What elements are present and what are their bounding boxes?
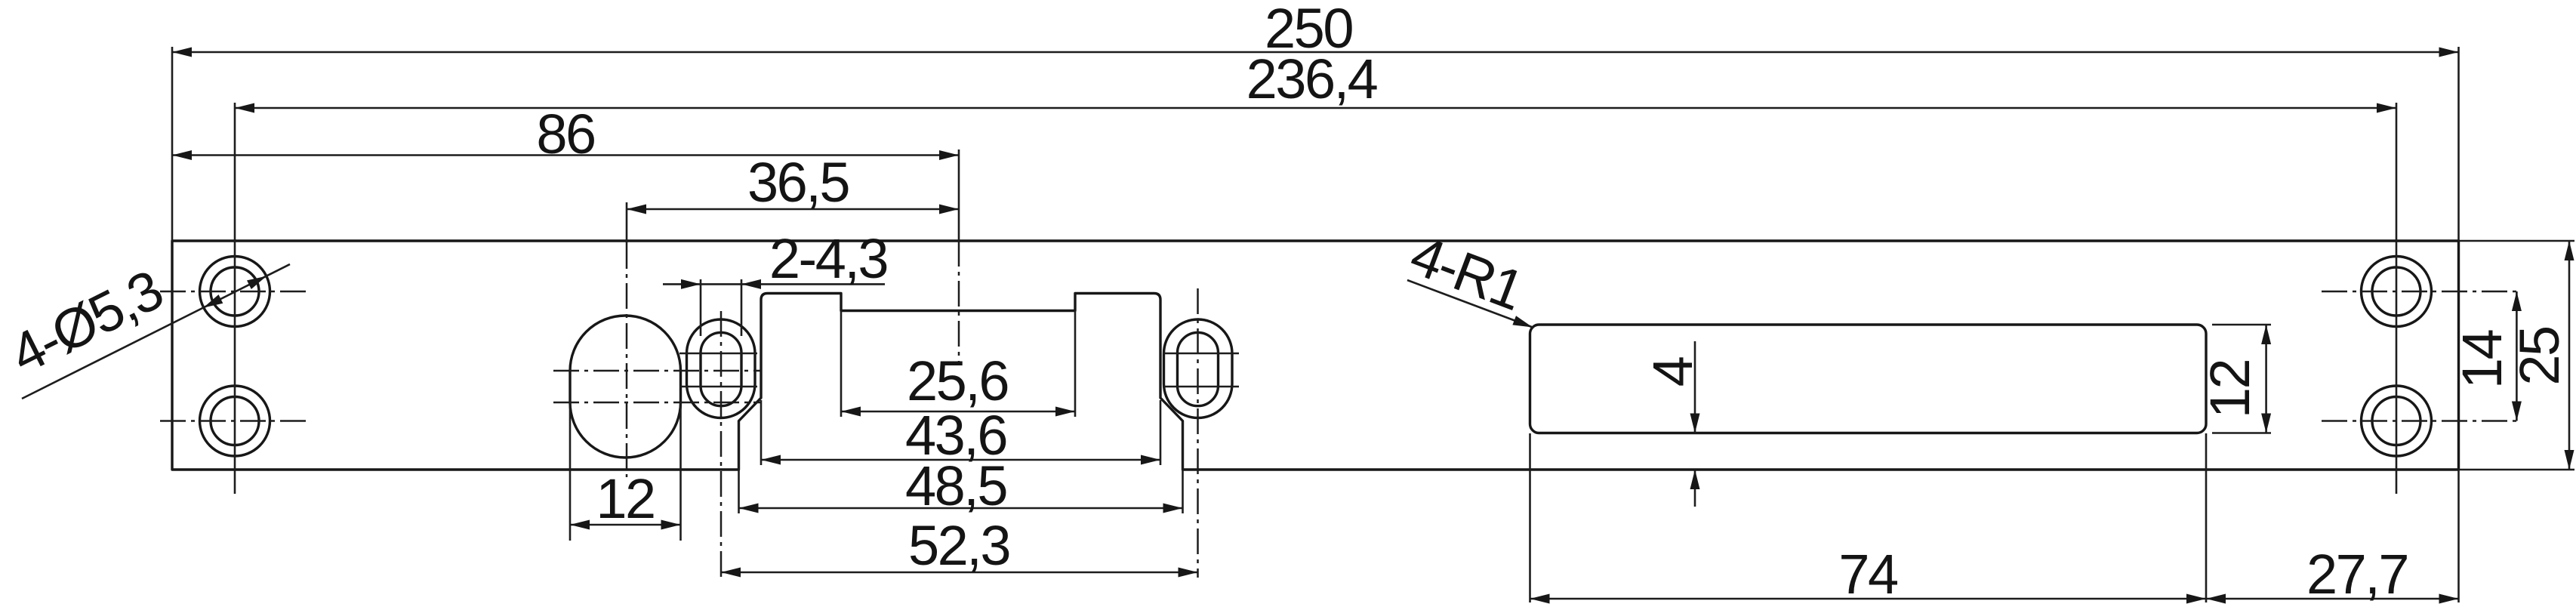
svg-text:48,5: 48,5 <box>905 455 1006 517</box>
centerline hole top-right <box>2322 291 2519 293</box>
dim 74 and 27,7 <box>1530 433 2459 602</box>
svg-text:27,7: 27,7 <box>2306 543 2408 604</box>
dim 25,6 <box>841 311 1075 418</box>
dim 2-4,3 <box>663 279 885 336</box>
hole top-left inner <box>211 267 259 316</box>
svg-text:4: 4 <box>1641 357 1704 387</box>
svg-text:25,6: 25,6 <box>907 350 1008 412</box>
hole top-left outer <box>200 257 270 327</box>
leader 4-d5,3 <box>22 264 290 399</box>
hole bottom-right inner <box>2372 397 2420 445</box>
centerline pocket vertical <box>958 149 960 241</box>
hole bottom-left inner <box>211 397 259 445</box>
dim 4 vertical <box>1694 341 1696 507</box>
dim 86 <box>172 154 959 156</box>
dim 48,5 <box>739 422 1183 513</box>
centerline right hole column <box>2396 103 2398 494</box>
centerline left slot arcs <box>679 353 757 387</box>
svg-text:74: 74 <box>1838 543 1897 604</box>
dim 43,6 <box>761 400 1160 465</box>
large oval latch hole <box>570 316 681 458</box>
dim 52,3 <box>721 572 1198 574</box>
right screw slot inner <box>1178 332 1219 405</box>
left screw slot inner <box>701 332 741 405</box>
centerline oval arc lower <box>553 402 760 404</box>
left screw slot outer <box>687 319 756 418</box>
centerline left slot vertical <box>720 311 723 578</box>
centerline hole bottom-right <box>2322 420 2519 422</box>
svg-text:36,5: 36,5 <box>747 151 849 214</box>
svg-text:14: 14 <box>2451 331 2513 390</box>
svg-text:2-4,3: 2-4,3 <box>769 227 887 290</box>
long slot right <box>1530 325 2207 433</box>
hole bottom-right outer <box>2362 386 2432 456</box>
dim 12 oval <box>570 402 681 541</box>
dim 14 holes <box>2516 291 2518 421</box>
dim 250 <box>172 47 2459 241</box>
hole top-right inner <box>2372 267 2420 316</box>
svg-text:86: 86 <box>536 103 594 165</box>
dim 12 slot end <box>2212 325 2271 433</box>
centerline hole bottom-left <box>160 420 308 422</box>
dim 36,5 <box>627 208 959 211</box>
centerline hole top-left <box>160 291 308 293</box>
dim 25 plate width <box>2459 241 2575 470</box>
leader 4-R1 <box>1407 280 1533 328</box>
svg-text:25: 25 <box>2508 327 2571 386</box>
svg-text:236,4: 236,4 <box>1246 48 1377 110</box>
svg-text:52,3: 52,3 <box>908 514 1009 577</box>
dim 236,4 <box>235 107 2396 109</box>
centerline right slot arcs <box>1163 353 1239 387</box>
centerline oval arc upper <box>553 370 760 372</box>
plate outline with strike pocket cutout <box>172 241 2459 470</box>
centerline right slot vertical <box>1197 288 1199 578</box>
hole top-right outer <box>2362 257 2432 327</box>
right screw slot outer <box>1164 319 1233 418</box>
centerline left hole column <box>234 103 236 494</box>
svg-text:12: 12 <box>596 467 654 530</box>
hole bottom-left outer <box>200 386 270 456</box>
svg-text:12: 12 <box>2199 360 2261 418</box>
centerline oval vertical <box>626 202 628 243</box>
